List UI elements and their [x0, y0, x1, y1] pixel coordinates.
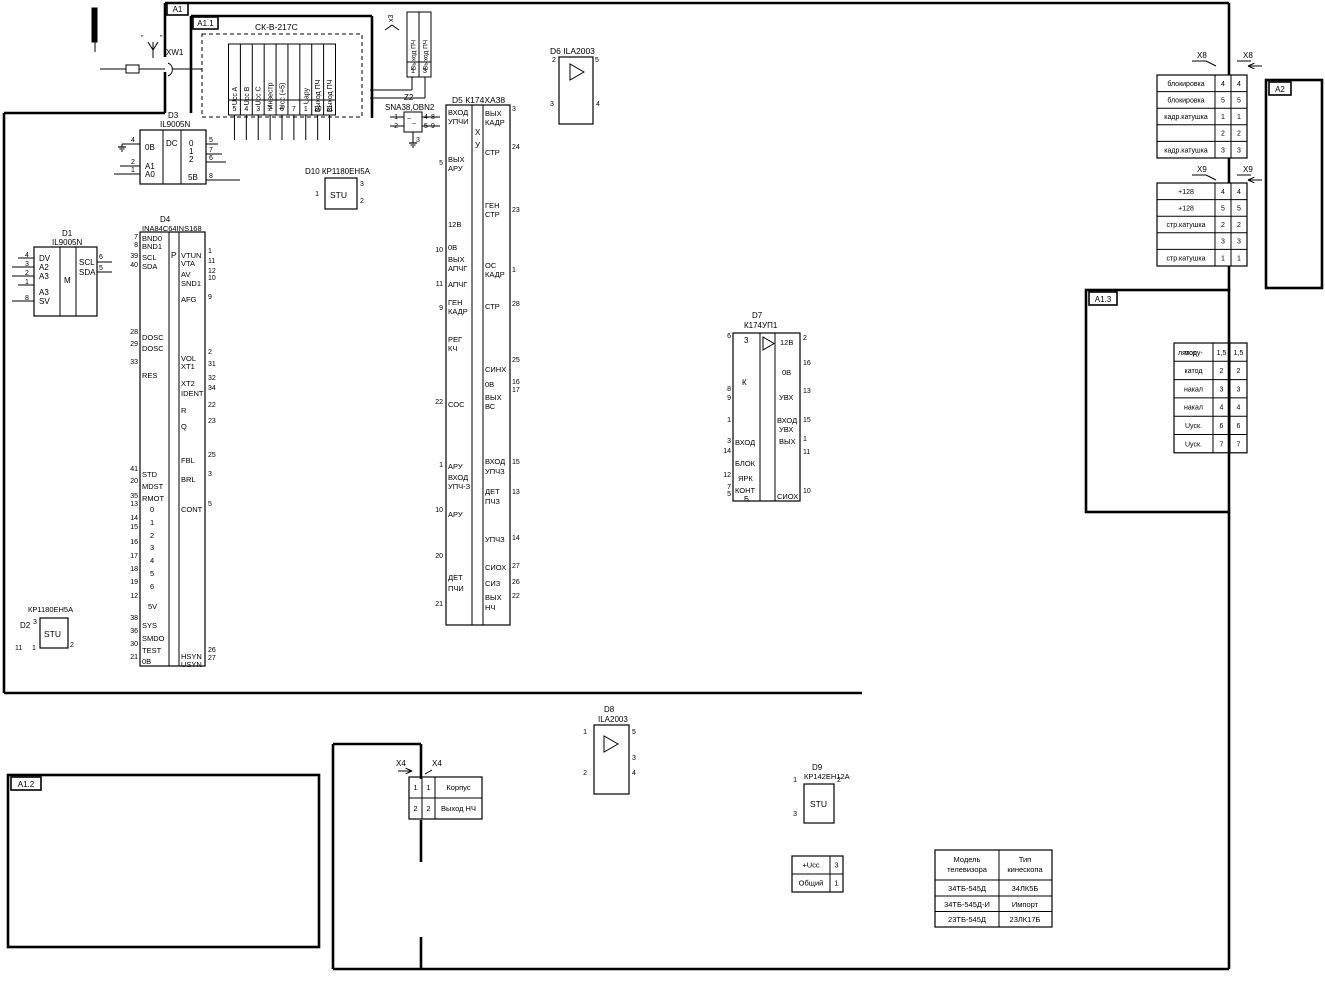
svg-text:3: 3 — [744, 336, 749, 345]
svg-text:3: 3 — [512, 106, 516, 113]
svg-text:4: 4 — [150, 556, 154, 565]
svg-text:кадр.катушка: кадр.катушка — [1164, 114, 1208, 121]
svg-text:X4: X4 — [396, 759, 406, 768]
svg-text:10: 10 — [803, 488, 811, 495]
svg-text:41: 41 — [130, 466, 138, 473]
svg-text:23ЛК17Б: 23ЛК17Б — [1010, 915, 1041, 924]
svg-text:КАДР: КАДР — [485, 118, 505, 127]
svg-text:2: 2 — [208, 349, 212, 356]
svg-text:5: 5 — [99, 265, 103, 272]
svg-text:SV: SV — [39, 297, 50, 306]
svg-text:AV: AV — [181, 270, 190, 279]
svg-text:11: 11 — [803, 449, 810, 456]
svg-text:11: 11 — [208, 258, 215, 265]
svg-text:1: 1 — [426, 783, 430, 792]
svg-text:ПЧИ: ПЧИ — [448, 584, 464, 593]
svg-text:32: 32 — [208, 375, 216, 382]
svg-text:0В: 0В — [782, 368, 791, 377]
svg-text:3: 3 — [1221, 239, 1225, 246]
svg-text:0B: 0B — [142, 657, 151, 666]
svg-text:СТР: СТР — [485, 302, 500, 311]
svg-text:КЧ: КЧ — [448, 344, 457, 353]
svg-text:1,5: 1,5 — [1234, 350, 1244, 357]
svg-text:38: 38 — [130, 615, 138, 622]
svg-text:8: 8 — [209, 173, 213, 180]
svg-text:STD: STD — [142, 470, 158, 479]
svg-text:12: 12 — [723, 472, 731, 479]
svg-text:11: 11 — [15, 645, 22, 652]
svg-text:АРУ: АРУ — [448, 510, 463, 519]
svg-text:6: 6 — [727, 333, 731, 340]
svg-text:3: 3 — [632, 755, 636, 762]
svg-text:БЛОК: БЛОК — [735, 459, 756, 468]
svg-text:1: 1 — [413, 783, 417, 792]
svg-text:31: 31 — [208, 361, 216, 368]
svg-text:35: 35 — [130, 493, 138, 500]
svg-text:1,5: 1,5 — [1217, 350, 1227, 357]
svg-text:ДЕТ: ДЕТ — [448, 573, 463, 582]
svg-text:7: 7 — [1237, 441, 1241, 448]
svg-text:17: 17 — [512, 387, 520, 394]
svg-text:5: 5 — [208, 501, 212, 508]
svg-text:16: 16 — [512, 379, 520, 386]
svg-text:УПЧЗ: УПЧЗ — [485, 535, 505, 544]
svg-text:5: 5 — [1237, 206, 1241, 213]
svg-text:7: 7 — [209, 147, 213, 154]
svg-text:10: 10 — [435, 247, 443, 254]
svg-text:12: 12 — [130, 593, 138, 600]
svg-text:29: 29 — [130, 341, 138, 348]
svg-text:A2: A2 — [1275, 85, 1285, 94]
svg-text:IDENT: IDENT — [181, 389, 204, 398]
svg-text:D8: D8 — [604, 705, 615, 714]
svg-text:XW1: XW1 — [166, 48, 184, 57]
svg-text:26: 26 — [208, 647, 216, 654]
svg-text:DOSC: DOSC — [142, 344, 164, 353]
svg-text:телевизора: телевизора — [947, 865, 988, 874]
svg-text:39: 39 — [130, 253, 138, 260]
svg-text:A1.2: A1.2 — [18, 780, 35, 789]
svg-text:2: 2 — [150, 531, 154, 540]
svg-text:5: 5 — [209, 137, 213, 144]
svg-text:27: 27 — [512, 563, 520, 570]
svg-text:7: 7 — [292, 106, 296, 113]
svg-text:0В: 0В — [485, 380, 494, 389]
svg-text:23: 23 — [512, 207, 520, 214]
svg-text:2: 2 — [268, 106, 272, 113]
svg-text:5: 5 — [1221, 98, 1225, 105]
svg-text:6: 6 — [99, 254, 103, 261]
svg-text:Выход ПЧ: Выход ПЧ — [423, 40, 430, 70]
svg-text:22: 22 — [435, 399, 443, 406]
svg-text:X4: X4 — [432, 759, 442, 768]
svg-text:X8: X8 — [1243, 51, 1253, 60]
svg-text:СК-В-217С: СК-В-217С — [255, 22, 298, 32]
svg-text:ВЫХ: ВЫХ — [448, 255, 465, 264]
svg-text:STU: STU — [44, 629, 61, 639]
svg-text:12: 12 — [208, 268, 216, 275]
svg-text:12В: 12В — [780, 338, 793, 347]
svg-text:CONT: CONT — [181, 505, 203, 514]
svg-text:D1: D1 — [62, 229, 73, 238]
svg-text:блокировка: блокировка — [1167, 80, 1204, 88]
svg-text:~: ~ — [412, 121, 416, 128]
svg-text:лятор: лятор — [1178, 350, 1197, 357]
svg-text:X8: X8 — [1197, 51, 1207, 60]
svg-text:6: 6 — [209, 155, 213, 162]
svg-text:3: 3 — [1220, 386, 1224, 393]
svg-text:УВХ: УВХ — [779, 425, 793, 434]
svg-text:ВЫХ: ВЫХ — [485, 393, 502, 402]
svg-text:5: 5 — [1221, 206, 1225, 213]
svg-text:SDA: SDA — [79, 268, 96, 277]
svg-text:4: 4 — [244, 106, 248, 113]
svg-text:R: R — [181, 406, 187, 415]
svg-text:УВХ: УВХ — [779, 393, 793, 402]
svg-text:4: 4 — [1237, 405, 1241, 412]
svg-text:ВЫХ: ВЫХ — [485, 593, 502, 602]
svg-text:3: 3 — [423, 68, 427, 75]
svg-text:РЕГ: РЕГ — [448, 335, 462, 344]
svg-text:Корпус: Корпус — [446, 783, 470, 792]
svg-text:25: 25 — [208, 452, 216, 459]
svg-text:5В: 5В — [188, 173, 198, 182]
svg-text:5: 5 — [632, 729, 636, 736]
svg-text:стр.катушка: стр.катушка — [1166, 255, 1205, 262]
svg-text:SMDO: SMDO — [142, 634, 165, 643]
svg-text:х3: х3 — [388, 15, 395, 23]
svg-text:4: 4 — [632, 770, 636, 777]
svg-text:21: 21 — [435, 601, 443, 608]
svg-text:10: 10 — [435, 507, 443, 514]
svg-text:4: 4 — [1237, 81, 1241, 88]
svg-text:СТР: СТР — [485, 210, 500, 219]
svg-text:2: 2 — [1221, 131, 1225, 138]
svg-text:D3: D3 — [168, 111, 179, 120]
svg-text:1: 1 — [834, 879, 838, 888]
svg-text:22: 22 — [208, 402, 216, 409]
svg-text:23: 23 — [208, 418, 216, 425]
svg-text:К174УП1: К174УП1 — [744, 321, 778, 330]
svg-text:34ЛК5Б: 34ЛК5Б — [1012, 884, 1039, 893]
svg-text:кинескопа: кинескопа — [1007, 865, 1043, 874]
svg-text:2: 2 — [1237, 131, 1241, 138]
svg-text:18: 18 — [130, 566, 138, 573]
svg-text:10: 10 — [314, 106, 322, 113]
svg-text:RMOT: RMOT — [142, 494, 164, 503]
svg-text:SCL: SCL — [142, 253, 157, 262]
svg-text:1: 1 — [208, 248, 212, 255]
svg-text:14: 14 — [130, 515, 138, 522]
svg-text:27: 27 — [208, 655, 216, 662]
svg-text:5: 5 — [439, 160, 443, 167]
svg-text:ВЫХ: ВЫХ — [779, 437, 796, 446]
svg-text:X: X — [475, 128, 481, 137]
svg-text:Б: Б — [744, 494, 749, 503]
svg-text:Выход ПЧ: Выход ПЧ — [411, 40, 418, 70]
svg-text:Uару: Uару — [303, 87, 310, 104]
svg-text:Uуск.: Uуск. — [1185, 441, 1202, 448]
svg-text:4: 4 — [1220, 405, 1224, 412]
svg-text:DOSC: DOSC — [142, 333, 164, 342]
svg-text:28: 28 — [512, 301, 520, 308]
svg-text:7: 7 — [727, 484, 731, 491]
svg-text:5: 5 — [595, 57, 599, 64]
svg-text:СОС: СОС — [448, 400, 465, 409]
svg-text:5: 5 — [150, 569, 154, 578]
svg-text:ВХОД: ВХОД — [735, 438, 755, 447]
svg-text:7: 7 — [134, 234, 138, 241]
svg-text:2: 2 — [189, 155, 194, 164]
svg-text:13: 13 — [803, 388, 811, 395]
svg-text:АПЧГ: АПЧГ — [448, 280, 467, 289]
svg-text:VTA: VTA — [181, 259, 195, 268]
svg-text:2: 2 — [1220, 368, 1224, 375]
svg-text:D9: D9 — [812, 763, 823, 772]
svg-text:4: 4 — [1237, 189, 1241, 196]
svg-text:MDST: MDST — [142, 482, 164, 491]
svg-text:D7: D7 — [752, 311, 763, 320]
svg-text:16: 16 — [130, 539, 138, 546]
svg-text:3: 3 — [793, 811, 797, 818]
svg-text:ПЧЗ: ПЧЗ — [485, 497, 500, 506]
svg-text:ВХОД: ВХОД — [777, 416, 797, 425]
svg-text:34: 34 — [208, 385, 216, 392]
svg-text:ВХОД: ВХОД — [448, 473, 468, 482]
svg-text:D10 КР1180ЕН5А: D10 КР1180ЕН5А — [305, 167, 371, 176]
svg-text:1: 1 — [131, 167, 135, 174]
svg-text:СИОХ: СИОХ — [777, 492, 798, 501]
svg-text:36: 36 — [130, 628, 138, 635]
svg-text:Ucc B: Ucc B — [244, 86, 251, 105]
svg-text:1: 1 — [793, 777, 797, 784]
svg-text:10: 10 — [208, 275, 216, 282]
svg-text:Общий: Общий — [799, 879, 824, 888]
svg-text:УПЧИ: УПЧИ — [448, 117, 469, 126]
svg-text:20: 20 — [435, 553, 443, 560]
svg-text:SCL: SCL — [79, 258, 95, 267]
svg-text:A3: A3 — [39, 288, 49, 297]
svg-text:SDA: SDA — [142, 262, 157, 271]
svg-text:3: 3 — [1237, 386, 1241, 393]
svg-text:34ТБ-545Д: 34ТБ-545Д — [948, 884, 986, 893]
svg-text:2: 2 — [803, 335, 807, 342]
svg-text:A1: A1 — [173, 5, 183, 14]
svg-text:33: 33 — [130, 359, 138, 366]
svg-text:XT1: XT1 — [181, 362, 195, 371]
svg-text:накал: накал — [1184, 405, 1203, 412]
svg-text:IL9005N: IL9005N — [160, 120, 190, 129]
svg-text:2: 2 — [413, 804, 417, 813]
svg-text:BND1: BND1 — [142, 242, 162, 251]
svg-text:ВС: ВС — [485, 402, 496, 411]
svg-text:ДЕТ: ДЕТ — [485, 487, 500, 496]
svg-text:SYS: SYS — [142, 621, 157, 630]
svg-text:6: 6 — [1220, 423, 1224, 430]
svg-text:14: 14 — [512, 535, 520, 542]
svg-text:АРУ: АРУ — [448, 462, 463, 471]
svg-text:~: ~ — [407, 116, 411, 123]
svg-text:1: 1 — [150, 518, 154, 527]
svg-text:IL9005N: IL9005N — [52, 238, 82, 247]
svg-text:14: 14 — [723, 448, 731, 455]
svg-text:ВХОД: ВХОД — [448, 108, 468, 117]
svg-text:26: 26 — [512, 579, 520, 586]
svg-text:ВЫХ: ВЫХ — [485, 109, 502, 118]
svg-text:ILA2003: ILA2003 — [598, 715, 628, 724]
svg-text:КР1180ЕН5А: КР1180ЕН5А — [28, 605, 73, 614]
svg-text:DC: DC — [166, 139, 178, 148]
svg-text:стр.катушка: стр.катушка — [1166, 222, 1205, 229]
svg-text:3: 3 — [256, 106, 260, 113]
svg-text:ГЕН: ГЕН — [485, 201, 499, 210]
svg-text:АПЧГ: АПЧГ — [448, 264, 467, 273]
svg-text:Q: Q — [181, 422, 187, 431]
svg-text:D2: D2 — [20, 621, 31, 630]
svg-text:1: 1 — [304, 106, 308, 113]
svg-text:3: 3 — [727, 438, 731, 445]
svg-text:9: 9 — [439, 305, 443, 312]
svg-text:АРУ: АРУ — [448, 164, 463, 173]
svg-text:8: 8 — [727, 386, 731, 393]
svg-text:A0: A0 — [145, 170, 155, 179]
svg-text:XT2: XT2 — [181, 379, 195, 388]
svg-text:3: 3 — [208, 471, 212, 478]
svg-text:21: 21 — [130, 654, 138, 661]
svg-text:5: 5 — [232, 106, 236, 113]
svg-text:2: 2 — [552, 57, 556, 64]
svg-text:FBL: FBL — [181, 456, 195, 465]
svg-text:Тип: Тип — [1019, 855, 1032, 864]
svg-text:3: 3 — [1221, 147, 1225, 154]
svg-text:+Ucc: +Ucc — [802, 861, 820, 870]
svg-text:0: 0 — [150, 505, 154, 514]
svg-text:УПЧЗ: УПЧЗ — [485, 467, 505, 476]
svg-text:22: 22 — [512, 593, 520, 600]
svg-text:3: 3 — [1237, 239, 1241, 246]
svg-text:1: 1 — [803, 436, 807, 443]
svg-text:Ucc C: Ucc C — [256, 86, 263, 105]
svg-text:5: 5 — [727, 491, 731, 498]
svg-text:6: 6 — [150, 582, 154, 591]
svg-text:3: 3 — [150, 543, 154, 552]
svg-text:2: 2 — [426, 804, 430, 813]
svg-text:DV: DV — [39, 254, 51, 263]
svg-text:3: 3 — [834, 861, 838, 870]
svg-text:4: 4 — [1221, 189, 1225, 196]
svg-text:D5 К174ХА38: D5 К174ХА38 — [452, 95, 505, 105]
svg-text:Uуск.: Uуск. — [1185, 423, 1202, 430]
svg-text:+128: +128 — [1178, 189, 1194, 196]
svg-text:13: 13 — [512, 489, 520, 496]
svg-text:1: 1 — [1221, 255, 1225, 262]
svg-text:15: 15 — [130, 524, 138, 531]
svg-text:2: 2 — [1237, 368, 1241, 375]
svg-text:Ucc A: Ucc A — [232, 87, 239, 106]
svg-text:11: 11 — [326, 106, 333, 113]
svg-text:A2: A2 — [39, 263, 49, 272]
svg-text:ВЫХ: ВЫХ — [448, 155, 465, 164]
svg-text:2: 2 — [837, 777, 841, 784]
svg-text:2: 2 — [583, 770, 587, 777]
svg-text:1: 1 — [1221, 114, 1225, 121]
svg-text:2: 2 — [131, 159, 135, 166]
svg-text:A1.1: A1.1 — [197, 19, 214, 28]
svg-text:ГЕН: ГЕН — [448, 298, 462, 307]
svg-text:ЯРК: ЯРК — [738, 474, 753, 483]
svg-text:7: 7 — [1220, 441, 1224, 448]
svg-text:1: 1 — [727, 417, 731, 424]
svg-text:3: 3 — [33, 619, 37, 626]
svg-text:катод: катод — [1185, 368, 1203, 375]
svg-text:ОС: ОС — [485, 261, 497, 270]
svg-text:Модель: Модель — [954, 855, 981, 864]
svg-text:кадр.катушка: кадр.катушка — [1164, 147, 1208, 154]
svg-text:СИНХ: СИНХ — [485, 365, 506, 374]
svg-text:23ТБ-545Д: 23ТБ-545Д — [948, 915, 986, 924]
svg-text:3: 3 — [1237, 147, 1241, 154]
svg-text:2: 2 — [70, 642, 74, 649]
svg-text:12В: 12В — [448, 220, 461, 229]
svg-text:ВХОД: ВХОД — [485, 457, 505, 466]
svg-text:M: M — [64, 276, 71, 285]
svg-text:1: 1 — [1237, 114, 1241, 121]
svg-text:D6 ILA2003: D6 ILA2003 — [550, 46, 595, 56]
svg-text:5: 5 — [1237, 98, 1241, 105]
svg-text:16: 16 — [803, 360, 811, 367]
svg-text:Импорт: Импорт — [1012, 900, 1039, 909]
svg-text:9: 9 — [208, 294, 212, 301]
svg-text:P: P — [171, 251, 176, 260]
svg-text:К: К — [742, 378, 747, 387]
svg-text:TEST: TEST — [142, 646, 162, 655]
svg-text:RES: RES — [142, 371, 157, 380]
svg-text:STU: STU — [330, 190, 347, 200]
svg-text:30: 30 — [130, 641, 138, 648]
svg-text:4: 4 — [131, 137, 135, 144]
svg-text:AFG: AFG — [181, 295, 197, 304]
svg-text:A1.3: A1.3 — [1095, 295, 1112, 304]
svg-text:0В: 0В — [448, 243, 457, 252]
svg-text:НЧ: НЧ — [485, 603, 495, 612]
svg-text:1: 1 — [512, 267, 516, 274]
svg-text:19: 19 — [130, 579, 138, 586]
svg-text:2: 2 — [1237, 222, 1241, 229]
svg-text:+128: +128 — [1178, 206, 1194, 213]
svg-text:УПЧ-З: УПЧ-З — [448, 482, 471, 491]
svg-text:SNA38,OBN2: SNA38,OBN2 — [385, 103, 435, 112]
svg-text:X9: X9 — [1197, 165, 1207, 174]
svg-text:СТР: СТР — [485, 148, 500, 157]
svg-text:0В: 0В — [145, 143, 155, 152]
svg-text:1: 1 — [439, 462, 443, 469]
svg-text:Выход НЧ: Выход НЧ — [441, 804, 476, 813]
svg-text:6: 6 — [1237, 423, 1241, 430]
svg-text:SND1: SND1 — [181, 279, 201, 288]
svg-text:СИЗ: СИЗ — [485, 579, 501, 588]
svg-text:КАДР: КАДР — [448, 307, 468, 316]
svg-text:1: 1 — [411, 68, 415, 75]
svg-text:USYN: USYN — [181, 660, 202, 669]
svg-text:X9: X9 — [1243, 165, 1253, 174]
svg-text:1: 1 — [583, 729, 587, 736]
svg-text:1: 1 — [315, 191, 319, 198]
svg-text:9: 9 — [727, 395, 731, 402]
svg-text:5V: 5V — [148, 602, 157, 611]
svg-text:1: 1 — [32, 645, 36, 652]
svg-text:24: 24 — [512, 144, 520, 151]
svg-text:8: 8 — [134, 242, 138, 249]
